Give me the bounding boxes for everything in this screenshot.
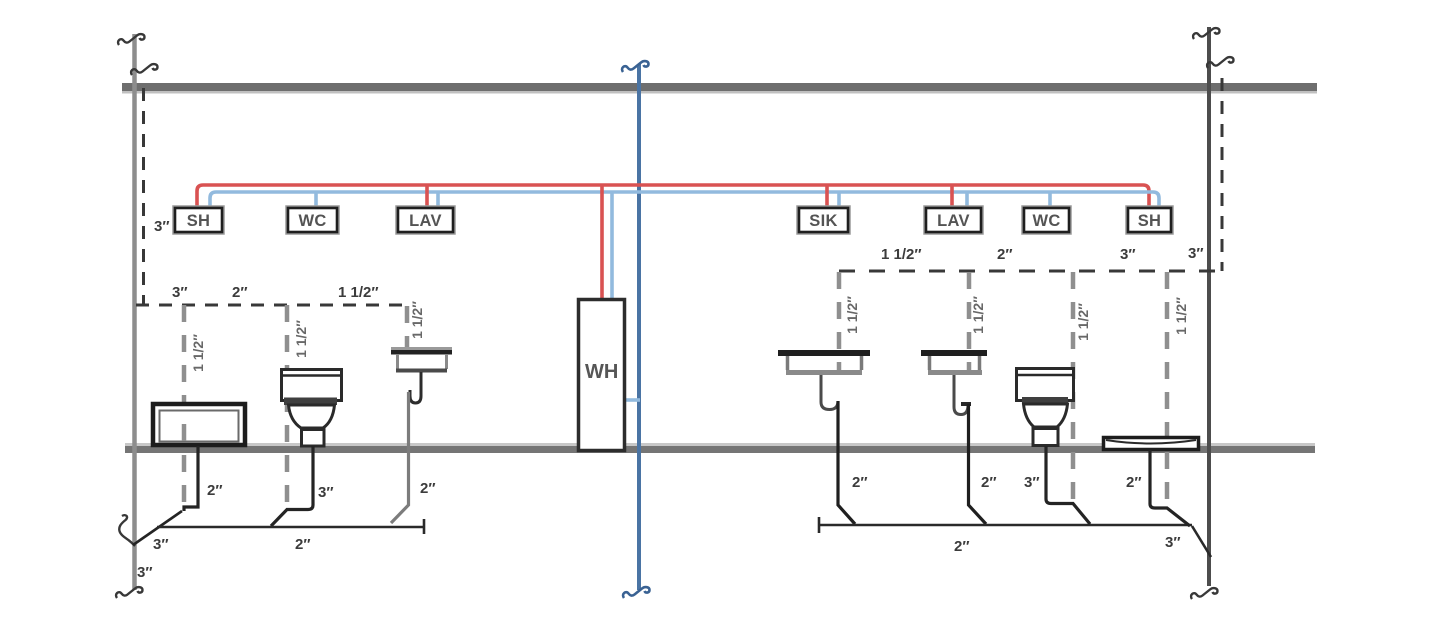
- svg-text:1 1/2″: 1 1/2″: [293, 320, 309, 358]
- shower pan right: [1104, 438, 1199, 450]
- toilet right: [1015, 369, 1075, 446]
- svg-text:3″: 3″: [137, 564, 153, 581]
- lav left drain below: [391, 392, 409, 523]
- right drain slant to stack: [1192, 526, 1211, 557]
- blue stack break curl bottom: [623, 587, 649, 598]
- vent riser right (dashed): [1221, 78, 1224, 271]
- shower vent (gray dashed): [1165, 272, 1170, 506]
- svg-text:3″: 3″: [1188, 245, 1204, 262]
- fixture box SIK: [799, 208, 848, 232]
- svg-text:2″: 2″: [295, 536, 311, 553]
- hot water line (red): [197, 185, 1149, 209]
- svg-text:2″: 2″: [981, 474, 997, 491]
- sik drain below: [838, 401, 855, 524]
- fixture box LAV right: [926, 208, 981, 232]
- tub drain below floor: [184, 446, 198, 511]
- blue drop to SIK: [837, 192, 841, 209]
- vent riser left (dashed): [142, 88, 145, 305]
- svg-text:1 1/2″: 1 1/2″: [844, 296, 860, 334]
- svg-text:2″: 2″: [954, 538, 970, 555]
- svg-text:1 1/2″: 1 1/2″: [409, 301, 425, 339]
- left stack break curl top 2: [131, 64, 157, 75]
- fixture box SH right: [1128, 208, 1171, 232]
- left stack break curl top 1: [118, 34, 144, 45]
- left stack break curl bottom 2: [116, 587, 142, 598]
- svg-text:WC: WC: [1032, 212, 1060, 230]
- svg-text:SIK: SIK: [809, 212, 837, 230]
- wc right drain below floor: [1046, 446, 1090, 524]
- right drain start tick: [818, 517, 821, 533]
- cold stub WH to main: [625, 398, 640, 402]
- svg-text:LAV: LAV: [409, 212, 442, 230]
- wc right vent (gray dashed): [1071, 272, 1076, 503]
- right stack break curl top 1: [1193, 28, 1219, 39]
- left drain stack: [132, 34, 137, 590]
- fixture box WC left: [288, 208, 337, 232]
- left stack break curl bottom 1: [119, 515, 135, 546]
- svg-text:3″: 3″: [1024, 474, 1040, 491]
- svg-text:LAV: LAV: [937, 212, 970, 230]
- svg-text:1 1/2″: 1 1/2″: [970, 296, 986, 334]
- svg-text:WH: WH: [585, 361, 618, 383]
- tub vent dash visible inside tub: [182, 424, 187, 441]
- cold water main stack (blue): [637, 64, 641, 590]
- svg-text:WC: WC: [298, 212, 326, 230]
- svg-text:1 1/2″: 1 1/2″: [338, 284, 379, 301]
- svg-text:2″: 2″: [852, 474, 868, 491]
- right drain stack: [1207, 27, 1211, 586]
- svg-text:3″: 3″: [1120, 246, 1136, 263]
- cold water line (blue): [210, 192, 1159, 209]
- svg-text:1 1/2″: 1 1/2″: [1075, 303, 1091, 341]
- blue drop to WC right: [1048, 192, 1052, 209]
- svg-text:3″: 3″: [153, 536, 169, 553]
- left drain end tick: [423, 519, 426, 534]
- left horizontal vent (dashed): [136, 304, 410, 307]
- right stack break curl top 2: [1207, 57, 1233, 68]
- top wall (ceiling line): [122, 83, 1317, 94]
- lav left vent (gray dashed): [405, 306, 410, 348]
- left building drain: [157, 526, 424, 529]
- svg-text:2″: 2″: [207, 482, 223, 499]
- svg-text:2″: 2″: [232, 284, 248, 301]
- tub vent (gray dashed): [182, 305, 187, 508]
- bathtub: [153, 404, 245, 445]
- fixture box WC right: [1024, 208, 1069, 232]
- blue drop to LAV left: [436, 192, 440, 209]
- lavatory right fixture: [921, 350, 987, 415]
- right building drain: [819, 524, 1192, 527]
- svg-text:1 1/2″: 1 1/2″: [881, 246, 922, 263]
- blue drop to LAV right: [965, 192, 969, 209]
- tub drain slant to stack: [133, 511, 182, 545]
- wc left vent (gray dashed): [285, 305, 290, 505]
- toilet left: [281, 370, 342, 447]
- svg-text:3″: 3″: [318, 484, 334, 501]
- fixture box SH left: [175, 208, 222, 232]
- red drop to WH: [600, 185, 604, 300]
- svg-text:2″: 2″: [420, 480, 436, 497]
- wc left drain below floor: [271, 446, 313, 526]
- lav right vent (gray dashed): [967, 272, 972, 375]
- right horizontal vent (dashed): [839, 270, 1222, 273]
- svg-text:1 1/2″: 1 1/2″: [1173, 297, 1189, 335]
- svg-text:SH: SH: [187, 212, 211, 230]
- sink SIK fixture: [778, 350, 870, 410]
- sik vent (gray dashed): [837, 272, 842, 375]
- svg-text:2″: 2″: [1126, 474, 1142, 491]
- red drop to SIK: [825, 185, 829, 209]
- svg-text:3″: 3″: [154, 218, 170, 235]
- lavatory left: [391, 347, 452, 403]
- fixture box LAV left: [398, 208, 453, 232]
- shower drain below floor: [1150, 450, 1190, 526]
- red drop to LAV left: [425, 185, 429, 209]
- blue drop to WH: [610, 192, 614, 300]
- svg-text:1 1/2″: 1 1/2″: [190, 334, 206, 372]
- red drop to LAV right: [950, 185, 954, 209]
- water heater WH: [579, 300, 625, 451]
- svg-text:3″: 3″: [172, 284, 188, 301]
- blue stack break curl top: [622, 61, 648, 72]
- svg-text:2″: 2″: [997, 246, 1013, 263]
- svg-text:3″: 3″: [1165, 534, 1181, 551]
- blue drop to WC left: [314, 192, 318, 209]
- svg-text:SH: SH: [1138, 212, 1162, 230]
- floor line: [125, 443, 1315, 453]
- right stack break curl bottom: [1191, 588, 1217, 599]
- lav right drain below: [969, 404, 987, 524]
